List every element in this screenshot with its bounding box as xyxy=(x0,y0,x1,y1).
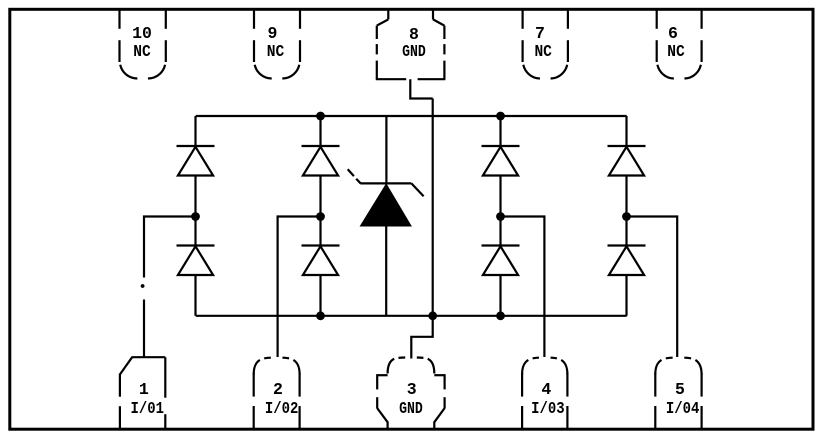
wire: D2 to bottom rail xyxy=(194,276,196,316)
pin 3 (GND) xyxy=(377,358,444,429)
diode D6 xyxy=(482,246,520,276)
wire: pin 8 to GND rail (jog) xyxy=(410,79,432,98)
wire: GND vertical line xyxy=(432,99,434,316)
svg-text:NC: NC xyxy=(133,42,151,61)
diode D4 xyxy=(302,246,340,276)
zener diode Z1 body xyxy=(361,185,411,226)
svg-text:7: 7 xyxy=(535,24,545,43)
wire: top rail to zener Z1 xyxy=(385,116,387,183)
node I/O1 junction xyxy=(191,212,200,221)
svg-text:I/03: I/03 xyxy=(531,399,565,418)
pin 4 (I/O3) xyxy=(522,358,567,429)
svg-text:I/04: I/04 xyxy=(666,399,700,418)
wire: zener Z1 to bottom rail xyxy=(385,226,387,316)
diode D2 xyxy=(177,246,215,276)
svg-text:1: 1 xyxy=(139,380,149,399)
wire: D1 to D2 through node I/O1 xyxy=(194,176,196,245)
diode D7 xyxy=(608,146,646,176)
pin 8 (GND) xyxy=(376,10,446,80)
junction: D3 at top rail xyxy=(316,112,325,121)
pin 10 (NC) xyxy=(120,10,166,79)
pin 2 (I/O2) xyxy=(254,358,300,429)
zener diode Z1 cathode bar xyxy=(360,182,411,184)
svg-text:4: 4 xyxy=(541,380,551,399)
pin 1 (I/O1) xyxy=(120,357,165,428)
junction: D5 at top rail xyxy=(496,112,505,121)
wire: D3 to D4 through node I/O2 xyxy=(319,176,321,245)
diode D8 xyxy=(608,246,646,276)
svg-text:2: 2 xyxy=(273,380,283,399)
svg-text:6: 6 xyxy=(668,24,678,43)
svg-text:3: 3 xyxy=(407,380,417,399)
pin 5 (I/O4) xyxy=(655,358,701,429)
diode D3 xyxy=(302,146,340,176)
svg-text:NC: NC xyxy=(667,42,685,61)
wire: node I/O1 to pin 1 xyxy=(144,217,196,358)
zener Z1 cathode bent end left xyxy=(348,169,361,183)
pin 6 (NC) xyxy=(657,10,702,79)
diode D5 xyxy=(482,146,520,176)
svg-text:NC: NC xyxy=(534,42,552,61)
wire: top rail to D5 xyxy=(499,116,501,146)
wire: top rail to D7 xyxy=(625,116,627,146)
wire: D6 to bottom rail xyxy=(499,276,501,316)
wire: top rail to D1 xyxy=(194,116,196,146)
wire: node I/O2 to pin 2 xyxy=(278,217,321,358)
wire: top rail bus xyxy=(196,115,627,117)
wire: D8 to bottom rail xyxy=(625,276,627,316)
wire: node I/O3 to pin 4 xyxy=(501,217,545,358)
zener Z1 cathode bent end right xyxy=(411,183,423,196)
wire: D7 to D8 through node I/O4 xyxy=(625,176,627,245)
svg-text:I/02: I/02 xyxy=(265,399,299,418)
wire: bottom rail to pin 3 (jog) xyxy=(411,316,432,359)
node: stray dot on pin 1 wire xyxy=(141,284,145,288)
svg-text:GND: GND xyxy=(399,399,423,418)
svg-text:9: 9 xyxy=(268,24,278,43)
wire: top rail to D3 xyxy=(319,116,321,146)
svg-text:10: 10 xyxy=(132,24,152,43)
svg-text:5: 5 xyxy=(675,380,685,399)
wire: node I/O4 to pin 5 xyxy=(627,217,678,358)
wire: D5 to D6 through node I/O3 xyxy=(499,176,501,245)
junction: D6 at bottom rail xyxy=(496,311,505,320)
svg-text:I/01: I/01 xyxy=(130,399,164,418)
pin 9 (NC) xyxy=(254,10,300,79)
node I/O4 junction xyxy=(622,212,631,221)
diode D1 xyxy=(177,146,215,176)
junction: GND at bottom rail xyxy=(428,311,437,320)
node I/O2 junction xyxy=(316,212,325,221)
wire: D4 to bottom rail xyxy=(319,276,321,316)
svg-text:GND: GND xyxy=(402,42,426,61)
pin 7 (NC) xyxy=(523,10,568,79)
node I/O3 junction xyxy=(496,212,505,221)
junction: D4 at bottom rail xyxy=(316,311,325,320)
svg-text:NC: NC xyxy=(267,42,285,61)
wire: bottom rail bus xyxy=(196,315,627,317)
